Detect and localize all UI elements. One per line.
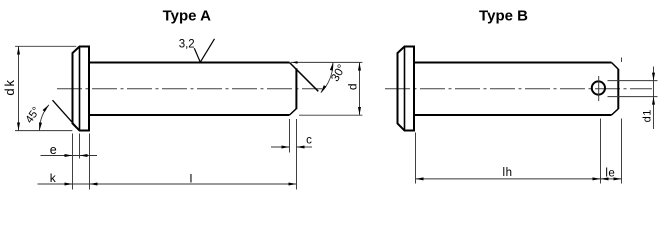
- svg-text:c: c: [306, 135, 312, 147]
- svg-text:e: e: [50, 143, 57, 157]
- svg-text:lh: lh: [503, 167, 513, 179]
- svg-text:3,2: 3,2: [179, 38, 195, 50]
- svg-text:Type A: Type A: [163, 8, 212, 25]
- svg-text:d: d: [345, 83, 359, 90]
- svg-text:k: k: [50, 171, 57, 185]
- svg-text:d1: d1: [641, 109, 653, 122]
- svg-text:Type B: Type B: [479, 8, 528, 25]
- svg-text:l: l: [190, 172, 193, 186]
- svg-text:le: le: [605, 168, 615, 180]
- svg-text:dk: dk: [2, 78, 17, 96]
